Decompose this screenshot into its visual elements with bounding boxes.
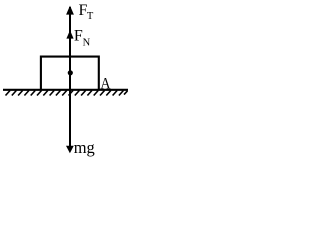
arrowhead F_N (up): [66, 30, 73, 38]
svg-text:T: T: [87, 11, 94, 22]
svg-text:mg: mg: [74, 138, 95, 157]
svg-text:N: N: [83, 38, 91, 49]
svg-text:A: A: [100, 75, 111, 92]
box (block on ground): [41, 57, 99, 90]
ground hatching: [6, 91, 128, 96]
wire: main vertical force line: [69, 7, 71, 151]
arrowhead F_T (up): [66, 6, 74, 15]
arrowhead mg (down): [66, 146, 74, 153]
ground line: [3, 89, 128, 91]
center of mass dot: [68, 70, 73, 75]
svg-text:F: F: [74, 27, 83, 44]
